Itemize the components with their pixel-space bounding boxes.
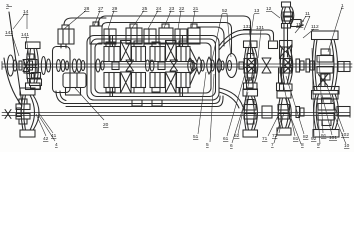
svg-text:8: 8 [301, 142, 304, 148]
svg-text:42: 42 [43, 136, 49, 142]
nut N3 [296, 107, 304, 118]
left long leader from 3 [9, 12, 22, 104]
pipe H1 down [56, 91, 66, 104]
synchro upper-right [166, 41, 177, 62]
leader 111 [295, 27, 300, 33]
disc group [72, 59, 76, 72]
u-joint X [262, 58, 271, 73]
drop shaft D3 [319, 73, 328, 87]
leader 4 [39, 116, 55, 141]
svg-text:132: 132 [243, 24, 251, 30]
valve block 29 [104, 29, 116, 44]
leader 42 [36, 114, 46, 136]
main shaft [2, 62, 352, 70]
svg-text:28: 28 [84, 6, 90, 12]
svg-text:112: 112 [311, 24, 319, 30]
coupling cup 3 [207, 57, 215, 74]
output cylinder [338, 62, 350, 72]
clutch drum 5 [226, 54, 244, 78]
leader 91 [319, 55, 323, 133]
svg-text:92: 92 [311, 136, 317, 142]
leader 29 [108, 11, 114, 30]
wheel 14 (clutch housing) [24, 42, 40, 90]
gear cluster lower-right-a [150, 73, 165, 93]
row stub pipes [110, 36, 183, 96]
left arc pipe [4, 58, 22, 106]
wheel W2 [244, 41, 258, 90]
drop shaft D2 [279, 68, 282, 83]
leader 23 [164, 11, 171, 29]
valve block 27 [90, 22, 102, 44]
lower shaft collar [17, 108, 22, 117]
svg-text:20: 20 [103, 122, 109, 128]
leader 10 [333, 112, 346, 144]
svg-text:51: 51 [193, 134, 199, 140]
leader 5 [210, 74, 214, 142]
input pulley 3 [7, 55, 13, 76]
gear cluster upper-mid [132, 41, 146, 62]
pipe valve 28 link [64, 18, 106, 25]
housing feet [132, 100, 142, 106]
valve block 22 [175, 29, 187, 44]
svg-text:13: 13 [254, 8, 260, 14]
axle cylinder C5 [262, 106, 272, 118]
coupling cup 1 [188, 58, 195, 74]
leader 142 [12, 35, 19, 57]
svg-text:71: 71 [262, 136, 268, 142]
svg-text:3: 3 [6, 3, 9, 9]
svg-text:29: 29 [112, 6, 118, 12]
shaft collar a [112, 62, 119, 70]
brake block on W3 [269, 41, 278, 49]
pto gear block 20 [63, 73, 86, 95]
nut N2 [306, 59, 314, 72]
leader 72 [279, 112, 284, 133]
bearing discs [96, 59, 100, 72]
leader 62 [238, 77, 250, 134]
svg-text:81: 81 [293, 136, 299, 142]
leader 11 [299, 16, 310, 30]
svg-text:72: 72 [272, 133, 278, 139]
svg-text:11: 11 [305, 11, 310, 17]
leader 112 [303, 29, 314, 38]
leader 102 [327, 86, 344, 132]
svg-text:101: 101 [329, 135, 337, 141]
leader 25 [132, 11, 144, 29]
leader 52 [212, 14, 231, 60]
leader 24 [148, 11, 158, 30]
valve block 23 [159, 24, 173, 44]
leader 51 [198, 72, 206, 134]
svg-text:9: 9 [317, 142, 320, 148]
link W1 to W0 [30, 73, 42, 90]
leader 14 [13, 14, 27, 30]
valve block 24 [144, 29, 156, 44]
stem H1 to valve 28 [61, 44, 66, 48]
leader 61 [227, 74, 245, 136]
svg-text:102: 102 [341, 132, 349, 138]
disc pair [41, 57, 45, 75]
gear cluster lower-far [177, 73, 191, 94]
lower shaft stub joint [5, 110, 11, 119]
svg-text:24: 24 [156, 6, 162, 12]
cone right [190, 48, 197, 85]
leader 27 [94, 11, 100, 27]
wheel W3 [280, 41, 293, 91]
svg-text:22: 22 [179, 6, 185, 12]
svg-text:41: 41 [51, 133, 57, 139]
leader 71 [268, 114, 279, 136]
u-joint J1 [19, 60, 33, 72]
coupling cup 4 [217, 58, 224, 73]
pipe housing to rear drop [219, 88, 243, 108]
shaft collar c [158, 62, 165, 70]
leader 1 [328, 7, 342, 52]
gear cluster upper-far [177, 41, 191, 62]
leader 9 [317, 97, 320, 144]
leader 41 [38, 112, 53, 133]
valve block 28 [58, 25, 74, 44]
leader 28 [64, 11, 86, 30]
leader 141 [26, 37, 29, 58]
mainshaft joint X2 [170, 60, 178, 71]
gear cluster upper-left [104, 42, 120, 62]
leader 8 [288, 110, 301, 144]
synchro lower-right [166, 72, 177, 93]
wheel W0 rear-left [16, 88, 39, 137]
hydraulic pipe P1 [98, 16, 251, 59]
gear cluster lower-mid [132, 73, 146, 94]
drop shaft D1 [247, 68, 254, 80]
nut N1 [296, 59, 304, 72]
svg-text:5: 5 [206, 142, 209, 148]
clutch housing H1 [53, 47, 71, 93]
svg-text:4: 4 [55, 142, 58, 148]
svg-text:141: 141 [21, 32, 29, 38]
synchro lower-left [121, 72, 132, 93]
gear cluster upper-right-a [150, 42, 165, 62]
svg-text:21: 21 [193, 6, 199, 12]
svg-text:91: 91 [321, 133, 327, 139]
svg-text:6: 6 [230, 143, 233, 149]
leader 7 [274, 116, 282, 143]
valve block 21 [188, 24, 200, 44]
gear cluster lower-left [104, 73, 120, 93]
svg-text:131: 131 [256, 25, 264, 31]
gearbox housing outer [87, 36, 219, 101]
leader 81 [281, 74, 295, 136]
pipe corner arc [198, 27, 224, 46]
svg-text:27: 27 [98, 6, 104, 12]
svg-text:111: 111 [296, 22, 304, 28]
valve block 25 [126, 24, 142, 44]
svg-text:25: 25 [142, 6, 148, 12]
gearbox housing mid [91, 39, 216, 97]
leader 12 [271, 11, 280, 18]
pipe bottom run [64, 96, 223, 107]
lower axle shaft [2, 111, 350, 118]
discs in H1 [57, 60, 61, 72]
svg-text:142: 142 [5, 30, 13, 36]
leader 3 [8, 6, 12, 8]
wheel W7 [313, 87, 339, 138]
bevel gear B2 [284, 59, 292, 73]
leader 82 [286, 76, 304, 134]
svg-text:52: 52 [222, 8, 228, 14]
synchro upper-left [121, 41, 132, 62]
wheel W6 [277, 91, 291, 135]
leader 22 [178, 11, 181, 30]
axle cylinder right [337, 107, 350, 117]
svg-text:62: 62 [234, 133, 240, 139]
svg-text:1: 1 [341, 3, 344, 9]
bevel gear B1 [248, 59, 256, 73]
svg-text:10: 10 [344, 143, 350, 149]
gearbox housing inner [95, 43, 211, 93]
hydraulic pipe P2 [219, 30, 274, 50]
leader 21 [192, 11, 195, 29]
svg-text:23: 23 [169, 6, 175, 12]
leader 101 [322, 95, 332, 135]
wheel W4 rear-right [312, 31, 339, 99]
svg-text:61: 61 [223, 136, 229, 142]
leader 13 [248, 14, 254, 53]
svg-text:12: 12 [266, 6, 272, 12]
leader 131 [258, 30, 261, 58]
coupling cup 2 [197, 57, 205, 74]
wheel W5 [243, 89, 258, 137]
svg-text:14: 14 [23, 9, 29, 15]
leader 132 [249, 29, 253, 56]
svg-text:82: 82 [303, 134, 309, 140]
pto top assembly 12 [280, 2, 304, 58]
mainshaft disc pair mid [146, 60, 155, 71]
leader 6 [232, 92, 248, 143]
leader 20 [75, 88, 104, 120]
mainshaft joint X1 [126, 60, 134, 71]
svg-text:7: 7 [271, 142, 274, 148]
leader 92 [312, 48, 314, 136]
